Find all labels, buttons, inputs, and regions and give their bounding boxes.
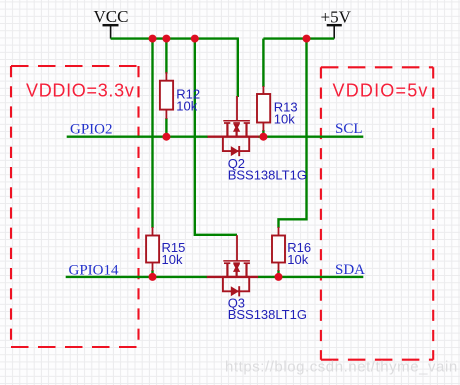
resistor R16	[272, 227, 285, 271]
transistor Q2 (N-MOSFET, gate pin / gate bar / channel bars / bulk arrow / source-drain bar / body diode)	[208, 96, 259, 156]
junction dot R16-SDA	[275, 273, 283, 281]
svg-text:10k: 10k	[176, 99, 197, 114]
junction dot R13-SCL	[259, 133, 267, 141]
resistor R15	[146, 227, 159, 271]
wire VCC rail to R12	[165, 39, 167, 74]
wire +5V rail to R13	[262, 39, 264, 87]
wire R12 bottom	[165, 118, 167, 137]
wire GPIO14-SDA line left	[66, 276, 208, 278]
wire R15 bottom	[151, 270, 153, 277]
svg-text:VCC: VCC	[94, 7, 129, 26]
junction dot rail-R12	[162, 35, 170, 43]
svg-text:10k: 10k	[274, 111, 295, 126]
junction dot rail-R16	[303, 35, 311, 43]
power symbol +5V	[321, 7, 352, 38]
wire GPIO14-SDA line right	[258, 276, 364, 278]
transistor Q3 (N-MOSFET, gate pin / gate bar / channel bars / bulk arrow / source-drain bar / body diode)	[207, 235, 258, 296]
wire +5V rail to R16 elbow	[279, 39, 307, 228]
svg-text:https://blog.csdn.net/thyme_va: https://blog.csdn.net/thyme_vain	[225, 358, 458, 375]
svg-text:SDA: SDA	[335, 262, 365, 278]
svg-text:10k: 10k	[287, 252, 308, 267]
svg-text:10k: 10k	[162, 252, 183, 267]
wire GPIO2-SCL line left	[67, 135, 208, 137]
power symbol VCC	[94, 7, 129, 39]
svg-text:GPIO2: GPIO2	[70, 121, 113, 137]
svg-text:VDDIO=5v: VDDIO=5v	[333, 81, 429, 101]
svg-text:SCL: SCL	[335, 121, 363, 137]
wire GPIO2-SCL line right	[258, 135, 363, 137]
dashed box VDDIO=3.3v region	[11, 66, 139, 347]
wire R16 bottom	[277, 270, 279, 277]
wire VCC top rail	[111, 37, 239, 39]
junction dot R15-GPIO14	[149, 273, 157, 281]
junction dot R12-GPIO2	[162, 133, 170, 141]
wire +5V top rail	[263, 37, 334, 39]
junction dot rail-Q3gate	[191, 35, 199, 43]
svg-text:VDDIO=3.3v: VDDIO=3.3v	[26, 81, 135, 101]
svg-text:+5V: +5V	[321, 7, 352, 26]
wire VCC rail to Q2 gate	[237, 39, 239, 97]
svg-text:BSS138LT1G: BSS138LT1G	[228, 167, 307, 182]
svg-text:GPIO14: GPIO14	[69, 262, 120, 278]
dashed box VDDIO=5v region	[321, 67, 433, 359]
resistor R13	[257, 86, 270, 131]
wire VCC rail to R15	[151, 39, 153, 228]
svg-text:BSS138LT1G: BSS138LT1G	[228, 307, 307, 322]
wire VCC rail to Q3 gate elbow	[195, 39, 237, 235]
resistor R12	[160, 72, 173, 119]
junction dot rail-R15	[149, 35, 157, 43]
wire R13 bottom	[262, 130, 264, 137]
